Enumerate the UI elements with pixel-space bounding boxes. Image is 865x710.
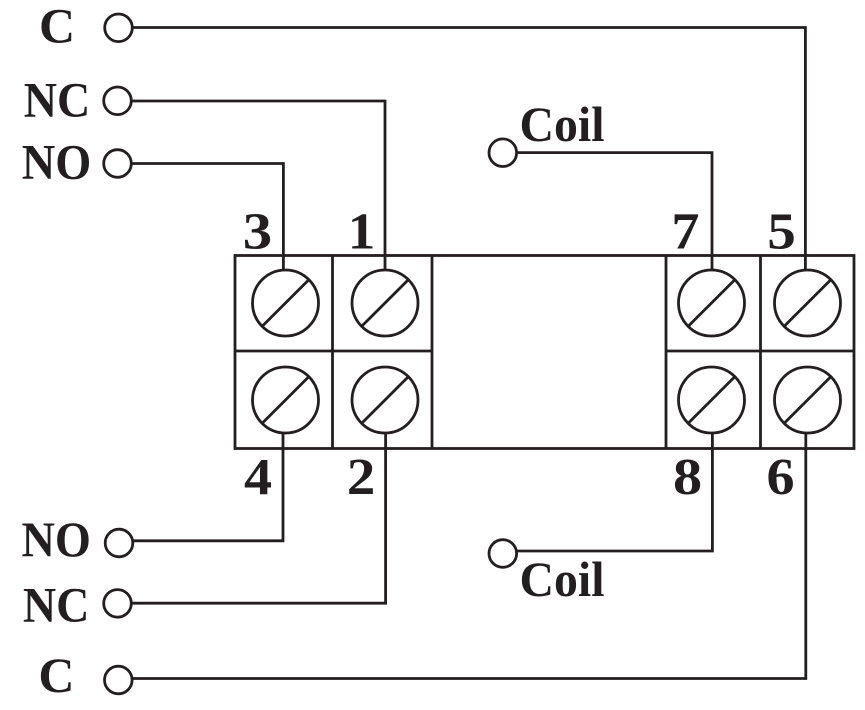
svg-text:NO: NO	[22, 134, 92, 190]
terminal 2 screw	[352, 367, 418, 433]
svg-text:C: C	[39, 0, 75, 54]
node NC top pin	[104, 87, 132, 115]
terminal 7 screw	[679, 270, 745, 336]
left terminal block right edge	[431, 256, 434, 449]
svg-text:5: 5	[767, 202, 796, 260]
wire NO bottom to terminal 4	[133, 433, 283, 541]
svg-text:Coil: Coil	[520, 551, 605, 607]
svg-text:4: 4	[244, 448, 272, 506]
relay body outline	[235, 256, 854, 449]
terminal 5 screw	[775, 270, 841, 336]
svg-text:NC: NC	[24, 72, 91, 128]
node Coil top pin	[489, 139, 517, 167]
terminal 4 screw	[253, 367, 319, 433]
svg-text:NC: NC	[23, 576, 90, 632]
left terminal block divider	[331, 256, 334, 449]
wire NO top to terminal 3	[131, 164, 283, 271]
left terminal block horizontal divider	[235, 350, 432, 353]
terminal 6 screw	[775, 367, 841, 433]
svg-text:8: 8	[673, 448, 702, 505]
node C top pin	[105, 14, 133, 42]
wire NC top to terminal 1	[131, 101, 385, 270]
node NO top pin	[104, 150, 132, 178]
svg-text:C: C	[38, 647, 74, 703]
svg-text:1: 1	[348, 202, 376, 260]
terminal 8 screw	[679, 367, 745, 433]
svg-text:2: 2	[347, 447, 376, 505]
node Coil bottom pin	[489, 540, 517, 568]
node NC bottom pin	[104, 590, 132, 618]
node C bottom pin	[105, 666, 133, 694]
right terminal block horizontal divider	[666, 350, 854, 353]
svg-text:NO: NO	[21, 511, 91, 567]
wire Coil bottom to terminal 8	[517, 433, 713, 551]
terminal 1 screw	[352, 270, 418, 336]
svg-text:3: 3	[243, 204, 272, 261]
node NO bottom pin	[105, 529, 133, 557]
wire C top to terminal 5	[132, 28, 805, 271]
wire Coil top to terminal 7	[517, 153, 712, 270]
wire C bottom to terminal 6	[132, 433, 806, 679]
svg-text:Coil: Coil	[520, 96, 605, 152]
svg-text:7: 7	[671, 202, 699, 260]
right terminal block divider	[759, 256, 762, 449]
terminal 3 screw	[253, 270, 319, 336]
svg-text:6: 6	[766, 448, 794, 506]
wire NC bottom to terminal 2	[131, 433, 385, 603]
right terminal block left edge	[665, 256, 668, 449]
